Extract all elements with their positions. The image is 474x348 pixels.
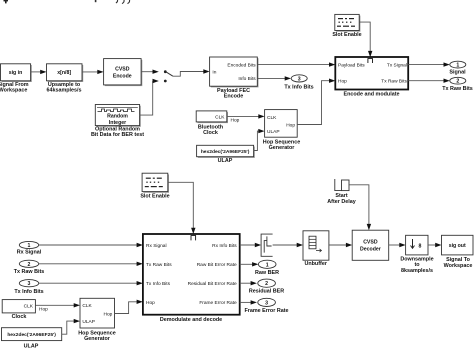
svg-text:Hop: Hop bbox=[338, 78, 347, 84]
svg-text:64ksamples/s: 64ksamples/s bbox=[46, 87, 81, 93]
svg-text:Tx Info Bits: Tx Info Bits bbox=[14, 289, 43, 295]
svg-text:CLK: CLK bbox=[267, 115, 277, 121]
svg-text:ULAP: ULAP bbox=[267, 129, 280, 135]
svg-text:Encoded Bits: Encoded Bits bbox=[227, 63, 256, 69]
svg-text:x[n/8]: x[n/8] bbox=[57, 70, 71, 76]
svg-text:ULAP: ULAP bbox=[82, 319, 95, 325]
svg-text:3: 3 bbox=[265, 300, 268, 306]
svg-text:Rx Info Bits: Rx Info Bits bbox=[212, 243, 237, 249]
svg-text:ULAP: ULAP bbox=[24, 343, 39, 348]
svg-text:Info Bits: Info Bits bbox=[238, 76, 256, 82]
svg-text:Unbuffer: Unbuffer bbox=[304, 261, 327, 267]
svg-text:Slot Enable: Slot Enable bbox=[332, 32, 361, 38]
svg-text:CLK: CLK bbox=[24, 304, 34, 310]
svg-text:Tx Signal: Tx Signal bbox=[387, 62, 407, 68]
svg-text:3: 3 bbox=[298, 76, 301, 82]
svg-text:ULAP: ULAP bbox=[218, 158, 233, 164]
svg-text:Generator: Generator bbox=[269, 145, 296, 151]
svg-text:Tx Raw Bits: Tx Raw Bits bbox=[146, 262, 172, 268]
svg-text:Tx Raw Bits: Tx Raw Bits bbox=[442, 86, 473, 92]
svg-text:After Delay: After Delay bbox=[327, 199, 355, 205]
svg-text:CVSD: CVSD bbox=[115, 67, 130, 73]
svg-text:Residual BER: Residual BER bbox=[249, 289, 284, 295]
svg-text:Hop: Hop bbox=[231, 118, 240, 124]
svg-text:Hop: Hop bbox=[286, 122, 295, 128]
svg-text:Signal: Signal bbox=[449, 70, 466, 76]
svg-text:Rx Signal: Rx Signal bbox=[17, 250, 42, 256]
svg-text:Tx Info Bits: Tx Info Bits bbox=[284, 85, 313, 91]
svg-text:Random: Random bbox=[107, 114, 128, 120]
svg-text:Clock: Clock bbox=[12, 314, 27, 320]
svg-text:hex2dec('2A96EF25'): hex2dec('2A96EF25') bbox=[7, 332, 56, 338]
svg-text:2: 2 bbox=[265, 281, 268, 287]
svg-text:Payload Bits: Payload Bits bbox=[338, 62, 365, 68]
svg-text:Frame Error Rate: Frame Error Rate bbox=[199, 300, 237, 306]
svg-text:CLK: CLK bbox=[82, 303, 92, 309]
svg-text:sig in: sig in bbox=[9, 70, 23, 76]
svg-text:Workspace: Workspace bbox=[0, 87, 27, 93]
svg-text:hex2dec('2A96EF25'): hex2dec('2A96EF25') bbox=[201, 149, 250, 155]
svg-text:Frame Error Rate: Frame Error Rate bbox=[244, 308, 288, 314]
svg-text:Rx Signal: Rx Signal bbox=[146, 243, 167, 249]
svg-text:In: In bbox=[212, 69, 216, 75]
svg-text:sig out: sig out bbox=[449, 243, 466, 249]
svg-text:Hop: Hop bbox=[146, 300, 155, 306]
svg-text:Residual Bit Error Rate: Residual Bit Error Rate bbox=[188, 281, 237, 287]
svg-text:1: 1 bbox=[28, 243, 31, 249]
svg-text:3: 3 bbox=[28, 281, 31, 287]
svg-text:8: 8 bbox=[419, 244, 422, 250]
svg-text:Tx Info Bits: Tx Info Bits bbox=[146, 281, 171, 287]
svg-text:Hop: Hop bbox=[103, 311, 112, 317]
svg-text:2: 2 bbox=[456, 79, 459, 85]
svg-text:Workspace: Workspace bbox=[444, 263, 473, 269]
svg-text:1: 1 bbox=[266, 262, 269, 268]
svg-text:2: 2 bbox=[28, 262, 31, 268]
svg-text:Generator: Generator bbox=[84, 336, 111, 342]
svg-text:CLK: CLK bbox=[215, 114, 225, 120]
svg-text:Raw Bit Error Rate: Raw Bit Error Rate bbox=[197, 262, 237, 268]
svg-text:Tx Raw Bits: Tx Raw Bits bbox=[381, 78, 407, 84]
svg-text:CVSD: CVSD bbox=[363, 240, 378, 246]
svg-text:8ksamples/s: 8ksamples/s bbox=[401, 268, 433, 274]
svg-text:Hop: Hop bbox=[39, 307, 48, 313]
svg-text:Integer: Integer bbox=[109, 120, 126, 126]
svg-text:Encode: Encode bbox=[113, 74, 132, 80]
svg-text:Encode and modulate: Encode and modulate bbox=[343, 92, 399, 98]
svg-text:Raw BER: Raw BER bbox=[255, 270, 279, 276]
svg-text:Slot Enable: Slot Enable bbox=[140, 193, 169, 199]
svg-text:Clock: Clock bbox=[203, 130, 218, 136]
svg-text:Tx Raw Bits: Tx Raw Bits bbox=[14, 269, 45, 275]
svg-text:Encode: Encode bbox=[224, 93, 243, 99]
svg-text:Bit Data for BER test: Bit Data for BER test bbox=[91, 132, 144, 138]
svg-text:Demodulate and decode: Demodulate and decode bbox=[160, 317, 222, 323]
svg-text:1: 1 bbox=[456, 63, 459, 69]
svg-text:Decoder: Decoder bbox=[360, 247, 381, 253]
